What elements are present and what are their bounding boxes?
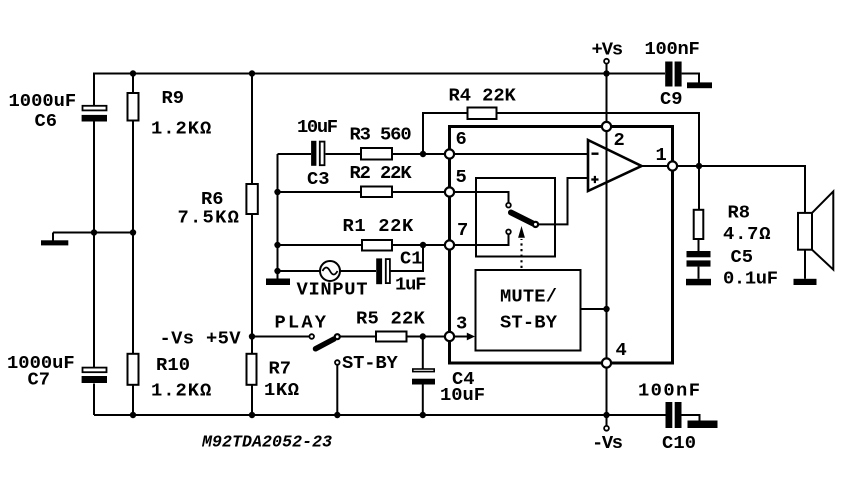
wire opamp output	[642, 165, 669, 167]
svg-text:-Vs: -Vs	[592, 432, 623, 454]
wire C3 row left	[278, 153, 312, 155]
wire pin6 to opamp minus input	[454, 153, 588, 155]
resistor R10	[128, 354, 139, 385]
ground bar C5	[686, 279, 711, 286]
ground bar left	[41, 240, 68, 245]
svg-text:100nF: 100nF	[645, 38, 700, 60]
terminal +Vs	[604, 59, 609, 64]
svg-text:R10: R10	[156, 354, 190, 376]
IC U1 outline box	[450, 127, 673, 364]
pin 7 circle	[445, 240, 454, 249]
mute control dotted arrow	[520, 239, 522, 268]
svg-text:-Vs +5V: -Vs +5V	[160, 328, 242, 350]
switch upper contact	[506, 203, 511, 208]
svg-text:MUTE/: MUTE/	[500, 286, 557, 308]
wire vinput to C1	[340, 270, 376, 272]
capacitor C9 plates	[665, 62, 672, 87]
wire R2 row	[278, 191, 362, 193]
wire R4 to output	[497, 113, 700, 166]
pin 3 arrow	[455, 336, 469, 338]
wire R9 to R10 column	[132, 121, 134, 354]
wire ground row	[53, 232, 133, 234]
wire lever to R5	[340, 336, 377, 338]
svg-text:C1: C1	[400, 248, 423, 270]
wire R1 to pin 7	[392, 244, 445, 246]
wire R2 to pin 5	[392, 191, 445, 193]
ST-BY contact	[335, 360, 340, 365]
svg-text:1000uF: 1000uF	[9, 90, 77, 112]
wire R4 branch	[423, 113, 468, 154]
resistor R1	[362, 240, 392, 251]
svg-text:C10: C10	[662, 432, 696, 454]
svg-text:1: 1	[656, 144, 667, 166]
svg-text:10uF: 10uF	[297, 116, 338, 138]
wire R8 from output junction	[698, 166, 700, 210]
svg-text:C5: C5	[731, 246, 754, 268]
switch lower contact	[506, 230, 511, 235]
svg-text:10uF: 10uF	[440, 384, 485, 406]
wire top rail	[94, 74, 665, 107]
wire input left vertical	[277, 154, 279, 279]
capacitor C4 plates	[413, 369, 434, 372]
svg-text:0.1uF: 0.1uF	[723, 268, 778, 290]
svg-text:1.2KΩ: 1.2KΩ	[151, 380, 211, 402]
svg-text:R4 22K: R4 22K	[449, 85, 517, 107]
wire play row left	[252, 336, 310, 338]
pin 2 node circle	[602, 122, 611, 131]
wire vinput row left	[278, 270, 321, 272]
wire R1 row	[278, 244, 363, 246]
wire C4 to bottom rail	[422, 385, 424, 416]
ground bar C10	[688, 421, 718, 429]
capacitor C5 plates	[687, 251, 711, 257]
op-amp minus sign	[592, 153, 599, 155]
resistor R9	[128, 93, 139, 121]
wire R5 to pin 3	[407, 336, 445, 338]
pin 4 node circle	[602, 358, 611, 367]
pin 5 circle	[445, 187, 454, 196]
wire R8 to C5	[698, 239, 700, 251]
svg-text:C3: C3	[307, 168, 330, 190]
pin 3 circle	[445, 332, 454, 341]
wire R9 column top	[132, 74, 134, 94]
wire ground row to C7	[93, 233, 95, 368]
wire C6 to ground row	[93, 122, 95, 233]
wire ground stub	[52, 233, 54, 241]
svg-text:R9: R9	[162, 87, 185, 109]
resistor R3	[361, 148, 392, 160]
svg-text:+Vs: +Vs	[592, 39, 624, 61]
svg-text:2: 2	[614, 129, 625, 151]
wire C1 up to R1 row	[391, 245, 424, 271]
wire pin1 to speaker	[677, 166, 805, 213]
capacitor C10 plates	[666, 402, 673, 428]
op-amp plus sign	[591, 176, 598, 183]
wire pin5 to switch contact	[454, 192, 509, 203]
resistor R6	[246, 184, 257, 214]
terminal -Vs	[604, 426, 609, 431]
svg-text:7: 7	[457, 219, 468, 241]
switch box	[476, 178, 555, 257]
capacitor C3 plates	[311, 141, 316, 166]
wire mute box to supply column	[581, 308, 607, 310]
wire +Vs terminal stub	[606, 64, 608, 74]
svg-text:5: 5	[456, 166, 467, 188]
resistor R8	[694, 210, 704, 239]
svg-text:1KΩ: 1KΩ	[264, 379, 299, 401]
svg-text:3: 3	[456, 313, 467, 335]
pin 6 circle	[445, 149, 454, 158]
svg-text:M92TDA2052-23: M92TDA2052-23	[201, 433, 332, 452]
wire node4 to -Vs	[606, 363, 608, 426]
wire R6 to R7 column	[251, 214, 253, 354]
svg-text:4.7Ω: 4.7Ω	[723, 223, 771, 245]
svg-text:4: 4	[616, 339, 627, 361]
svg-text:PLAY: PLAY	[275, 312, 327, 334]
svg-text:ST-BY: ST-BY	[342, 352, 399, 374]
speaker LS1	[798, 213, 812, 250]
svg-text:R3 560: R3 560	[350, 124, 412, 146]
svg-text:C6: C6	[35, 110, 58, 132]
source VINPUT circle	[320, 261, 340, 281]
wire R6 column top	[251, 74, 253, 185]
ground bar C9	[687, 82, 712, 88]
wire R3 to pin 6	[392, 153, 445, 155]
MUTE/ST-BY box	[476, 270, 581, 351]
ground bar vinput	[266, 279, 290, 286]
switch lever	[511, 213, 533, 224]
wire bottom rail	[94, 414, 666, 416]
resistor R5	[376, 332, 407, 342]
wire C9 branch	[682, 74, 699, 84]
capacitor C6 plates	[83, 106, 107, 111]
PLAY switch contact	[309, 334, 314, 339]
wire C5 to ground bar	[698, 267, 700, 279]
wire R5 junction to C4	[422, 337, 424, 369]
wire R7 to bottom rail	[251, 385, 253, 415]
svg-text:1uF: 1uF	[395, 274, 427, 296]
svg-text:C7: C7	[28, 369, 51, 391]
ground bar speaker	[794, 279, 817, 285]
capacitor C1 plates	[376, 258, 382, 284]
wire speaker to ground	[804, 250, 806, 279]
svg-text:100nF: 100nF	[638, 380, 700, 402]
svg-text:ST-BY: ST-BY	[500, 312, 558, 334]
wire C10 branch	[682, 415, 700, 422]
wire C7 to bottom rail	[93, 384, 95, 416]
wire +Vs column node2 to node4	[606, 74, 608, 364]
op-amp U1 triangle	[588, 140, 642, 191]
svg-text:1.2KΩ: 1.2KΩ	[151, 118, 211, 140]
PLAY switch lever	[316, 339, 335, 349]
svg-text:VINPUT: VINPUT	[297, 279, 368, 301]
wire switch pivot to opamp plus input	[538, 178, 588, 224]
wire pin7 to switch contact	[454, 234, 509, 245]
svg-text:R5 22K: R5 22K	[356, 308, 426, 330]
resistor R2	[361, 187, 392, 198]
svg-text:R1 22K: R1 22K	[343, 215, 415, 237]
wire R10 to bottom rail	[132, 385, 134, 415]
svg-text:7.5KΩ: 7.5KΩ	[178, 207, 239, 229]
pin 1 circle	[668, 161, 677, 170]
svg-text:R8: R8	[728, 202, 751, 224]
wire ST-BY contact to bottom rail	[336, 365, 338, 415]
svg-text:R2 22K: R2 22K	[350, 162, 413, 184]
capacitor C7 plates	[83, 368, 107, 373]
svg-text:R7: R7	[269, 358, 292, 380]
resistor R7	[247, 354, 257, 385]
resistor R4	[468, 108, 497, 120]
svg-text:6: 6	[456, 128, 467, 150]
wire C3 to R3	[326, 153, 362, 155]
svg-text:C9: C9	[660, 88, 683, 110]
